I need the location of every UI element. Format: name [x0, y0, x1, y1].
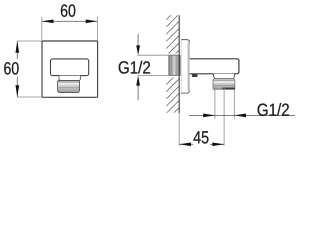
dimension 60 top: value label	[61, 4, 75, 16]
G1/2 left: dimension line upper segment	[137, 34, 139, 46]
G1/2 left: extension line bottom	[138, 74, 180, 76]
G1/2 right: leader line	[189, 114, 295, 116]
threaded nipple (front view)	[58, 81, 80, 93]
G1/2 left: dimension line lower segment	[137, 85, 139, 100]
square wall plate (front view)	[42, 41, 98, 97]
dimension 45: extension line left (wall continuation)	[178, 113, 180, 146]
dimension 60 left: dimension line upper segment	[16, 41, 18, 59]
dimension 60 left: value label	[4, 62, 18, 74]
dimension 45: dimension line left segment	[179, 143, 193, 145]
mounting plate (side view)	[181, 40, 189, 94]
elbow body (side view)	[189, 59, 239, 74]
dimension 60 top: extension line left	[41, 17, 43, 41]
wall line	[178, 15, 180, 113]
dimension 45: dimension line right segment	[210, 143, 224, 145]
G1/2 right: arrowhead pointing left	[234, 114, 246, 118]
thread lines on front nipple	[58, 81, 79, 83]
centerline of outlet	[223, 87, 225, 146]
G1/2 left: extension line top	[138, 54, 180, 56]
thread lines on side nipple	[213, 80, 234, 82]
plate top edge	[181, 40, 189, 43]
dimension 60 top: extension line right	[96, 17, 98, 41]
dimension 60 top: right arrowhead	[86, 19, 98, 23]
outlet collar (front view)	[59, 76, 80, 81]
G1/2 right: arrowhead pointing right	[203, 114, 215, 118]
inlet thread ridges	[171, 56, 173, 75]
dark bottom band on side nipple	[222, 88, 234, 90]
dimension 45: value label	[194, 131, 209, 143]
threaded nipple (side view)	[213, 78, 235, 89]
G1/2 left: label	[119, 61, 150, 74]
plate right-edge shading	[188, 42, 190, 91]
G1/2 right: extension line right	[233, 90, 235, 119]
dimension 60 left: dimension line lower segment	[16, 77, 18, 97]
dimension 60 left: top arrowhead	[15, 41, 19, 53]
dimension 60 left: extension line bottom	[17, 96, 42, 98]
dimension 60 left: extension line top	[17, 40, 42, 42]
outlet collar (side view)	[214, 74, 235, 79]
G1/2 left: upper arrowhead pointing down	[136, 45, 140, 55]
plate bottom edge	[181, 90, 189, 93]
shadow mark under body near plate	[192, 74, 198, 77]
dimension 60 top: left arrowhead	[42, 19, 54, 23]
dimension 60 left: bottom arrowhead	[15, 85, 19, 97]
G1/2 right: extension line left	[214, 90, 216, 119]
dimension 60 top: dimension line	[42, 20, 98, 22]
dimension 45: right arrowhead	[212, 142, 224, 146]
G1/2 right: label	[258, 103, 289, 116]
inlet thread into wall (G1/2)	[169, 55, 180, 75]
outlet body (front view)	[51, 59, 89, 76]
dimension 45: left arrowhead	[179, 142, 191, 146]
G1/2 left: lower arrowhead pointing up	[136, 75, 140, 85]
wall hatching	[162, 2, 184, 125]
